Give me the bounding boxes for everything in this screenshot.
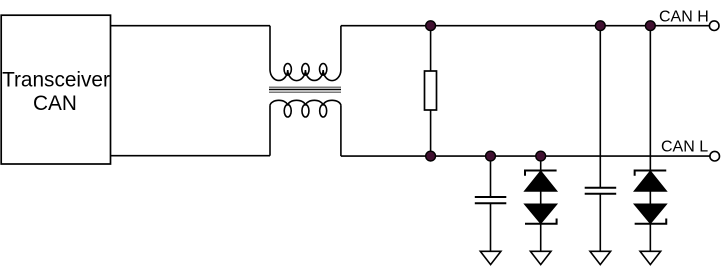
common-mode choke L1 bottom winding (270, 100, 341, 156)
junction dot (R1 top on CAN H) (426, 21, 436, 31)
svg-text:CAN: CAN (33, 92, 77, 115)
wire CANH from transceiver to choke (111, 25, 271, 27)
junction dot (C2 on CAN H) (595, 21, 605, 31)
junction dot (D2 on CAN H) (645, 21, 655, 31)
junction dot (R1 bottom on CAN L) (426, 151, 436, 161)
label Transceiver CAN (2, 69, 110, 115)
ground (530, 251, 551, 264)
common-mode choke L1 core (269, 87, 341, 92)
terminal CAN H (709, 21, 719, 31)
svg-text:CAN H: CAN H (659, 9, 709, 26)
junction dot (C1 on CAN L) (486, 151, 496, 161)
TVS diode D1 (bidirectional) (524, 156, 557, 251)
transceiver box U1 (1, 15, 110, 164)
ground (480, 251, 501, 264)
wire CAN H bus (341, 25, 709, 27)
terminal CAN L (710, 151, 720, 161)
svg-text:CAN L: CAN L (661, 138, 708, 155)
capacitor C2 (585, 26, 617, 252)
resistor R1 (425, 26, 437, 156)
junction dot (D1 on CAN L) (536, 151, 546, 161)
svg-text:Transceiver: Transceiver (2, 69, 110, 92)
ground (640, 251, 661, 264)
common-mode choke L1 top winding (270, 26, 341, 81)
capacitor C1 (475, 156, 507, 251)
wire CAN L bus (341, 155, 710, 157)
wire CANL from transceiver to choke (111, 155, 271, 157)
ground (590, 251, 611, 264)
TVS diode D2 (bidirectional) (634, 26, 667, 252)
